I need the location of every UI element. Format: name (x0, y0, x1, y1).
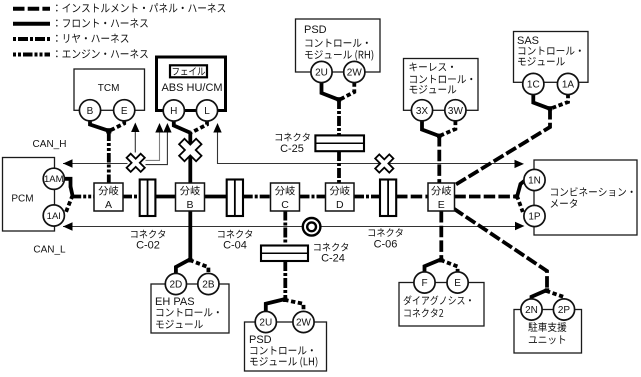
terminal TCM E (114, 100, 135, 121)
wire junction E down to diagnosis fork (instrument panel harness) (439, 211, 443, 260)
svg-text:C-25: C-25 (280, 143, 304, 155)
wire fork to PSD LH 2W (dashed) (284, 300, 303, 312)
wire ABS H branch (solid) (174, 121, 191, 133)
connector C-04 label (218, 230, 252, 252)
svg-text:C: C (281, 199, 289, 211)
terminal parking 2P (553, 299, 574, 320)
svg-text:2W: 2W (347, 68, 363, 79)
connector C-04 symbol (227, 180, 243, 217)
wire keyless down to junction E (instrument panel harness) (437, 135, 441, 184)
svg-text:B: B (87, 106, 94, 117)
terminal diagnosis F (414, 272, 435, 293)
wire SAS 1A branch (dashed) (551, 94, 568, 108)
fail label box inside ABS (170, 65, 207, 77)
legend instrument panel harness line (13, 3, 225, 12)
svg-text:PCM: PCM (11, 194, 33, 205)
svg-text:C-06: C-06 (374, 239, 398, 251)
svg-text:F: F (421, 278, 427, 289)
junction dot EH PAS fork (188, 258, 192, 262)
wire fork to diagnosis F (solid) (425, 259, 442, 272)
svg-text:TCM: TCM (98, 83, 120, 94)
wire C-24 down to PSD LH fork (rear harness) (283, 261, 287, 300)
module EH PAS (151, 284, 229, 333)
wire bus junction B to C-04 (front harness solid) (205, 195, 228, 199)
svg-text:2P: 2P (558, 305, 571, 316)
wire ABS down to junction B (front harness solid) (188, 132, 192, 184)
wire PSD RH 2U branch (solid) (322, 83, 340, 100)
node CAN_H label (33, 139, 67, 150)
svg-text:CAN_L: CAN_L (33, 245, 66, 256)
wire TCM B branch (solid) (90, 121, 109, 131)
svg-text:2B: 2B (202, 280, 215, 291)
terminal parking 2N (521, 299, 542, 320)
wire bus junction E to meter fork (instrument panel harness) (454, 195, 517, 199)
module PSD RH (296, 19, 381, 72)
module keyless control module (404, 59, 479, 111)
legend engine harness line (13, 49, 148, 58)
svg-text:E: E (121, 106, 128, 117)
module parking assist unit (514, 310, 582, 354)
legend rear harness line (13, 34, 129, 43)
terminal PSD LH 2U (255, 311, 276, 332)
module TCM (74, 69, 145, 110)
module diagnosis connector 2 (399, 283, 484, 327)
svg-text:C-04: C-04 (223, 240, 247, 252)
wire SAS diagonal to junction E (instrument panel harness) (455, 108, 550, 185)
wire keyless 3X branch (solid) (422, 121, 439, 136)
svg-text:D: D (336, 199, 344, 211)
connector C-24 symbol (261, 246, 308, 262)
wire CAN_H branch arrow (inner, gray) (146, 123, 164, 160)
wire PCM to junction (engine harness) (71, 187, 73, 197)
svg-text:C-02: C-02 (136, 240, 160, 252)
svg-text:E: E (454, 278, 461, 289)
wire PSD RH down to C-25 (rear harness) (337, 99, 341, 136)
svg-text:PSD: PSD (304, 24, 327, 36)
wire bus C-06 to junction E (instrument panel harness) (396, 195, 428, 199)
break mark X on ABS trunk (179, 139, 201, 161)
terminal diagnosis E (447, 272, 468, 293)
wire bus C-02 to junction B (front harness solid) (155, 195, 176, 199)
svg-text:1P: 1P (528, 212, 541, 223)
svg-text:1AM: 1AM (44, 174, 64, 185)
terminal ABS L (196, 100, 217, 121)
junction dot PSD LH fork (283, 298, 287, 302)
svg-text:PSD: PSD (249, 334, 272, 346)
svg-text:B: B (186, 199, 193, 211)
svg-text:1AI: 1AI (47, 211, 61, 222)
terminal keyless 3X (411, 100, 432, 121)
module SAS control module (514, 32, 589, 83)
svg-text:E: E (438, 199, 445, 211)
break mark X on CAN_H near PCM (127, 154, 145, 172)
svg-text:H: H (170, 106, 177, 117)
wire bus PCM to junction A (engine harness) (72, 195, 95, 199)
module combination meter (534, 160, 637, 235)
junction box 分岐D (326, 183, 355, 211)
connector C-24 label (314, 243, 348, 265)
terminal meter 1P (524, 205, 545, 226)
terminal PSD LH 2W (293, 311, 314, 332)
terminal ABS H (163, 100, 184, 121)
wire fork to diagnosis E (dashed) (441, 260, 458, 273)
junction box 分岐A (94, 183, 123, 211)
wire fork to PSD LH 2U (solid) (266, 299, 286, 312)
wire fork to meter 1P (dashed) (517, 196, 523, 213)
module PCM (3, 158, 55, 232)
terminal SAS 1A (557, 73, 578, 94)
wire CAN_H arrow up from break X to TCM/ABS junction (131, 123, 139, 153)
terminal PSD RH 2U (311, 61, 332, 82)
wire junction C down to C-24 (rear harness) (283, 211, 287, 247)
node CAN_L label (33, 245, 66, 256)
wire TCM E branch (dashed) (110, 121, 124, 131)
wire TCM down to junction A (engine harness) (107, 132, 111, 184)
wire CAN_H branch arrow (outer) (146, 123, 172, 165)
junction dot keyless fork (437, 134, 441, 138)
connector C-06 symbol (380, 180, 396, 217)
svg-text:2W: 2W (296, 318, 312, 329)
legend front harness line (13, 18, 148, 27)
splice double circle on CAN_L (303, 218, 321, 236)
terminal meter 1N (524, 169, 545, 190)
svg-text:1C: 1C (527, 80, 540, 91)
terminal SAS 1C (523, 73, 544, 94)
wire keyless 3W branch (dashed) (441, 121, 456, 136)
wire fork to EH PAS 2B (dashed) (190, 260, 209, 274)
junction dot diagnosis fork (439, 258, 443, 262)
terminal PCM 1AI (43, 205, 64, 226)
wire PCM 1AM elbow (solid) (64, 179, 71, 188)
svg-text:2U: 2U (259, 318, 272, 329)
svg-text:C-24: C-24 (321, 253, 345, 265)
wire fork to meter 1N (solid) (517, 180, 526, 198)
break mark X on CAN_H right section (375, 154, 393, 172)
wire PSD RH 2W branch (dashed) (340, 83, 354, 100)
connector C-25 label (276, 133, 310, 155)
connector C-25 symbol (315, 135, 364, 151)
module ABS HU/CM (157, 57, 226, 111)
junction dot PSD RH fork (337, 97, 341, 101)
terminal PCM 1AM (43, 168, 64, 189)
wire bus junction A to connector C-02 (engine harness) (123, 195, 141, 199)
svg-text:2U: 2U (315, 68, 328, 79)
wire C-25 down to junction D (rear harness) (337, 151, 341, 184)
junction dot meter fork (515, 194, 519, 198)
terminal EH PAS 2D (165, 273, 186, 294)
wire bus junction C to junction D (rear harness) (300, 195, 327, 199)
wire bus junction D to C-06 (rear harness) (354, 195, 380, 199)
junction dot parking fork (545, 288, 549, 292)
junction dot TCM fork (106, 128, 111, 133)
svg-text:2D: 2D (170, 280, 183, 291)
wire bus C-04 to junction C (rear harness) (243, 195, 271, 199)
terminal TCM B (79, 100, 100, 121)
junction box 分岐B (176, 183, 205, 211)
wire CAN_H thin line PCM section (63, 159, 128, 167)
terminal PSD RH 2W (344, 61, 365, 82)
wire PCM 1AI branch (engine harness, dashed) (66, 195, 73, 213)
junction box 分岐C (271, 183, 300, 211)
wire fork to EH PAS 2D (solid) (176, 259, 190, 274)
wire CAN_H thin line middle-right section with up arrow (213, 123, 524, 168)
svg-text:L: L (204, 106, 210, 117)
connector C-06 label (369, 228, 403, 250)
svg-text:2N: 2N (525, 305, 538, 316)
connector C-02 symbol (140, 180, 156, 217)
svg-text:1A: 1A (562, 80, 575, 91)
junction box 分岐E (428, 183, 455, 211)
svg-text:3W: 3W (448, 106, 464, 117)
svg-text:ABS HU/CM: ABS HU/CM (161, 82, 222, 94)
svg-text:SAS: SAS (517, 35, 539, 47)
terminal keyless 3W (445, 100, 466, 121)
svg-text:1N: 1N (528, 176, 541, 187)
connector C-02 label (131, 230, 165, 252)
module PSD LH (245, 322, 327, 371)
wire SAS 1C branch (solid) (533, 94, 550, 109)
wire ABS L branch (dashed) (192, 121, 208, 133)
svg-text:A: A (105, 199, 112, 211)
wire junction E diagonal to parking unit (instrument panel harness) (454, 209, 548, 292)
wire junction B down to EH PAS fork (front harness solid) (188, 212, 192, 261)
svg-text:EH PAS: EH PAS (155, 296, 195, 308)
wire fork to parking 2P (dashed) (546, 291, 564, 300)
terminal EH PAS 2B (198, 273, 219, 294)
wire CAN_L thin line (63, 222, 525, 231)
svg-text:3X: 3X (416, 106, 429, 117)
wire fork to parking 2N (solid) (532, 290, 548, 300)
svg-text:CAN_H: CAN_H (33, 139, 67, 150)
junction dot SAS fork (548, 106, 552, 110)
